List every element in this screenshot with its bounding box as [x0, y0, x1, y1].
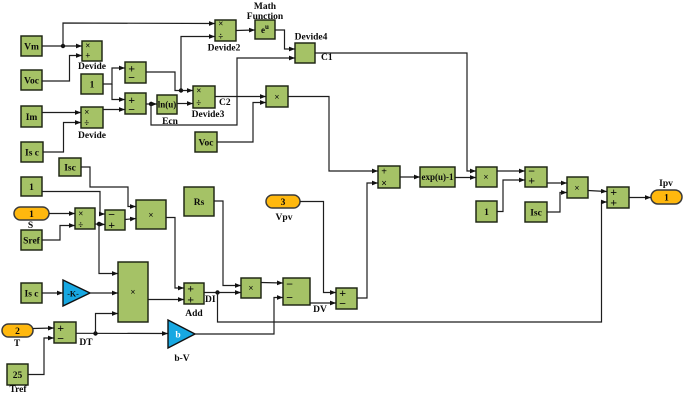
svg-text:DI: DI	[205, 295, 216, 305]
wire Isc b to bigx	[81, 167, 136, 207]
wire 1c to minus-plus3 plus	[497, 180, 525, 212]
svg-text:−: −	[128, 102, 135, 116]
svg-text:-K-: -K-	[67, 290, 79, 299]
svg-text:Devide4: Devide4	[295, 33, 328, 43]
wire Vm to Devide	[42, 45, 82, 47]
svg-text:Voc: Voc	[24, 76, 39, 86]
node junction DT out	[93, 331, 97, 335]
divide prod	[75, 208, 95, 230]
wire prod to minus-plus	[95, 223, 105, 226]
wire minus-plus3 to mult4	[547, 182, 567, 184]
wire Is c2 to K	[42, 292, 63, 294]
product mult2	[241, 278, 261, 298]
gain -K-	[63, 280, 90, 306]
constant 1a	[81, 74, 103, 94]
svg-text:×: ×	[381, 179, 387, 190]
sum plus-plus	[607, 185, 629, 210]
wire bigx to Add	[166, 218, 184, 289]
port inport 3 Vpv	[266, 195, 300, 223]
wire junction up to Devide2 div	[181, 37, 215, 91]
math function e^u	[255, 20, 275, 39]
wire minus-plus to bigx	[125, 219, 136, 220]
svg-text:−: −	[57, 331, 64, 345]
wire DT to b	[76, 332, 168, 334]
source Voc2	[195, 132, 217, 152]
svg-text:DT: DT	[79, 338, 93, 348]
sum minus-plus	[105, 207, 125, 232]
source Is c	[21, 142, 43, 162]
svg-text:Voc: Voc	[199, 138, 214, 148]
svg-text:×: ×	[248, 283, 253, 293]
wire e^u to Devide4	[275, 30, 295, 49]
svg-text:Sref: Sref	[23, 236, 41, 246]
svg-text:T: T	[14, 339, 21, 349]
svg-text:exp(u)-1: exp(u)-1	[422, 172, 454, 182]
divide Devide lower	[78, 107, 106, 141]
svg-text:2: 2	[15, 327, 20, 337]
divide Devide	[78, 41, 106, 72]
wire mult4 to plus-plus	[588, 191, 607, 192]
svg-text:Is c: Is c	[25, 289, 39, 299]
svg-text:×: ×	[274, 92, 279, 102]
constant Sref	[21, 230, 42, 250]
node junction Sum1 out	[179, 88, 183, 92]
wire K to tallx	[90, 292, 118, 294]
svg-text:u: u	[265, 23, 269, 31]
svg-text:×: ×	[130, 287, 135, 297]
wire prod branch to tallx in1	[99, 224, 118, 274]
wire Voc2 to mult1	[217, 103, 266, 143]
svg-text:b: b	[175, 331, 180, 341]
divide Devide3	[192, 86, 225, 120]
svg-text:1: 1	[29, 183, 34, 193]
wire Devide4 C1 to mult3	[315, 53, 476, 171]
wire mult2 to DV	[261, 282, 283, 285]
wire Sum1 to Devide3	[146, 72, 193, 91]
svg-text:Isc: Isc	[64, 163, 76, 173]
wire DT branch to tallx in3	[96, 314, 118, 334]
wire oval2 T to DT	[33, 327, 54, 330]
wire Im to Devide lower	[42, 112, 81, 114]
wire plus-minus2 up to plus-x	[357, 183, 378, 298]
svg-text:C1: C1	[321, 53, 333, 63]
node junction Vm	[61, 44, 65, 48]
svg-text:÷: ÷	[78, 220, 83, 230]
svg-text:Tref: Tref	[9, 385, 27, 394]
wire Ecn feedback to Devide4	[151, 58, 295, 125]
svg-text:−: −	[286, 290, 293, 304]
constant 1b	[21, 177, 42, 196]
wire Voc to Devide plus	[42, 56, 82, 82]
svg-text:Devide3: Devide3	[192, 110, 225, 120]
svg-text:Devide2: Devide2	[208, 44, 241, 54]
divide Devide4	[295, 33, 328, 64]
svg-text:Is c: Is c	[25, 148, 39, 158]
sum Sum2	[125, 93, 146, 117]
svg-text:+: +	[381, 167, 387, 178]
wire DV to plus-minus2	[310, 302, 336, 304]
port outport 1 Ipv	[651, 179, 682, 204]
wire 25 to DT minus	[28, 338, 54, 375]
svg-text:×: ×	[483, 172, 488, 182]
svg-text:÷: ÷	[84, 118, 89, 128]
sum DT	[54, 321, 93, 348]
sum DV	[283, 277, 327, 315]
svg-text:Add: Add	[185, 309, 203, 319]
sum minus-plus3	[525, 164, 547, 188]
svg-text:b-V: b-V	[174, 354, 189, 364]
svg-text:Ipv: Ipv	[659, 179, 673, 189]
wire b to DV lower	[195, 298, 283, 335]
wire ln(u) to Devide3 div	[177, 103, 193, 105]
wire Add to mult2	[204, 292, 241, 294]
port inport 1 S	[14, 207, 49, 231]
svg-text:Math: Math	[254, 2, 277, 12]
svg-text:×: ×	[78, 209, 83, 219]
svg-text:+: +	[187, 292, 194, 306]
svg-text:÷: ÷	[196, 98, 201, 108]
svg-text:+: +	[108, 218, 115, 232]
svg-text:Vm: Vm	[24, 42, 39, 52]
svg-text:Devide: Devide	[78, 131, 106, 141]
wire 1b to minus-plus minus	[42, 192, 105, 215]
node junction DI	[215, 290, 219, 294]
source Vm	[21, 36, 42, 56]
svg-text:×: ×	[84, 107, 89, 117]
svg-text:1: 1	[90, 80, 95, 90]
e^u text and Math Function label	[247, 2, 284, 35]
svg-text:÷: ÷	[218, 32, 223, 42]
product mult4	[567, 177, 588, 198]
svg-text:Function: Function	[247, 12, 284, 22]
svg-text:Vpv: Vpv	[276, 213, 293, 223]
svg-text:+: +	[85, 51, 90, 61]
product bigx	[136, 200, 166, 229]
product tallx	[118, 262, 148, 322]
sum plus-minus2	[336, 286, 357, 311]
source Is c2	[21, 283, 42, 303]
svg-text:−: −	[286, 277, 293, 291]
source Voc	[21, 70, 42, 90]
sum Sum1	[125, 61, 146, 84]
port inport 2 T	[2, 324, 33, 349]
svg-text:×: ×	[85, 41, 90, 51]
constant 1c	[476, 201, 497, 222]
wire Devide2 to e^u	[236, 29, 255, 32]
product mult3	[476, 167, 497, 187]
gain b-V	[168, 320, 195, 364]
wire 1a branch to Sum2 plus	[112, 84, 125, 100]
wire DI down long to plus-plus	[218, 202, 607, 322]
svg-text:Isc: Isc	[530, 208, 542, 218]
wire mult3 to minus-plus3	[497, 170, 525, 172]
wire mult1 to plus-x sum	[288, 97, 378, 172]
wire junction up to Devide2	[63, 23, 215, 46]
svg-text:1: 1	[484, 208, 489, 218]
math exp(u)-1	[420, 167, 455, 187]
wire exp to mult3	[455, 177, 476, 179]
node junction prod out	[97, 222, 101, 226]
svg-text:×: ×	[218, 19, 223, 29]
svg-text:3: 3	[281, 198, 286, 208]
sum plus-x	[378, 166, 400, 190]
wire Sum2 to ln(u)	[146, 103, 157, 105]
source Im	[21, 106, 42, 127]
product mult1	[266, 86, 288, 107]
wire tallx to Add	[148, 299, 184, 301]
svg-text:×: ×	[574, 183, 579, 193]
svg-text:Devide: Devide	[78, 62, 106, 72]
svg-text:×: ×	[196, 86, 201, 96]
wire Devide lower to Sum2 minus	[103, 109, 125, 111]
svg-text:×: ×	[148, 210, 153, 220]
svg-text:ln(u): ln(u)	[158, 100, 177, 110]
svg-text:+: +	[610, 195, 617, 209]
divide Devide2	[208, 19, 241, 54]
svg-text:+: +	[528, 173, 535, 187]
svg-text:1: 1	[29, 210, 34, 220]
wire 1a to Sum1 plus	[103, 68, 125, 84]
svg-text:C2: C2	[219, 98, 231, 108]
svg-text:DV: DV	[313, 305, 327, 315]
sum Add	[184, 281, 204, 319]
gain Rs	[184, 187, 214, 216]
wire Sref to prod div	[42, 226, 75, 241]
svg-text:−: −	[128, 70, 135, 84]
constant Isc d	[525, 202, 547, 222]
wire plus-x sum to exp	[400, 176, 420, 178]
constant Isc b	[59, 158, 81, 176]
svg-text:−: −	[339, 296, 346, 310]
wire Vpv to plus-minus2	[300, 202, 336, 293]
svg-text:Rs: Rs	[194, 198, 205, 208]
wire plus-plus to Ipv	[629, 197, 651, 199]
wire Rs to mult2	[214, 201, 241, 286]
svg-text:1: 1	[664, 194, 669, 204]
svg-text:25: 25	[13, 371, 23, 381]
wire Is c to Devide lower div	[43, 123, 81, 153]
wire Isc d to mult4	[547, 193, 567, 213]
math ln(u)	[157, 95, 179, 127]
wire oval1 to prod	[49, 213, 75, 215]
svg-text:Im: Im	[26, 113, 38, 123]
node junction Sum2 out	[149, 102, 153, 106]
wire Devide3 C2 to mult1	[215, 96, 266, 98]
constant 25	[7, 364, 28, 394]
